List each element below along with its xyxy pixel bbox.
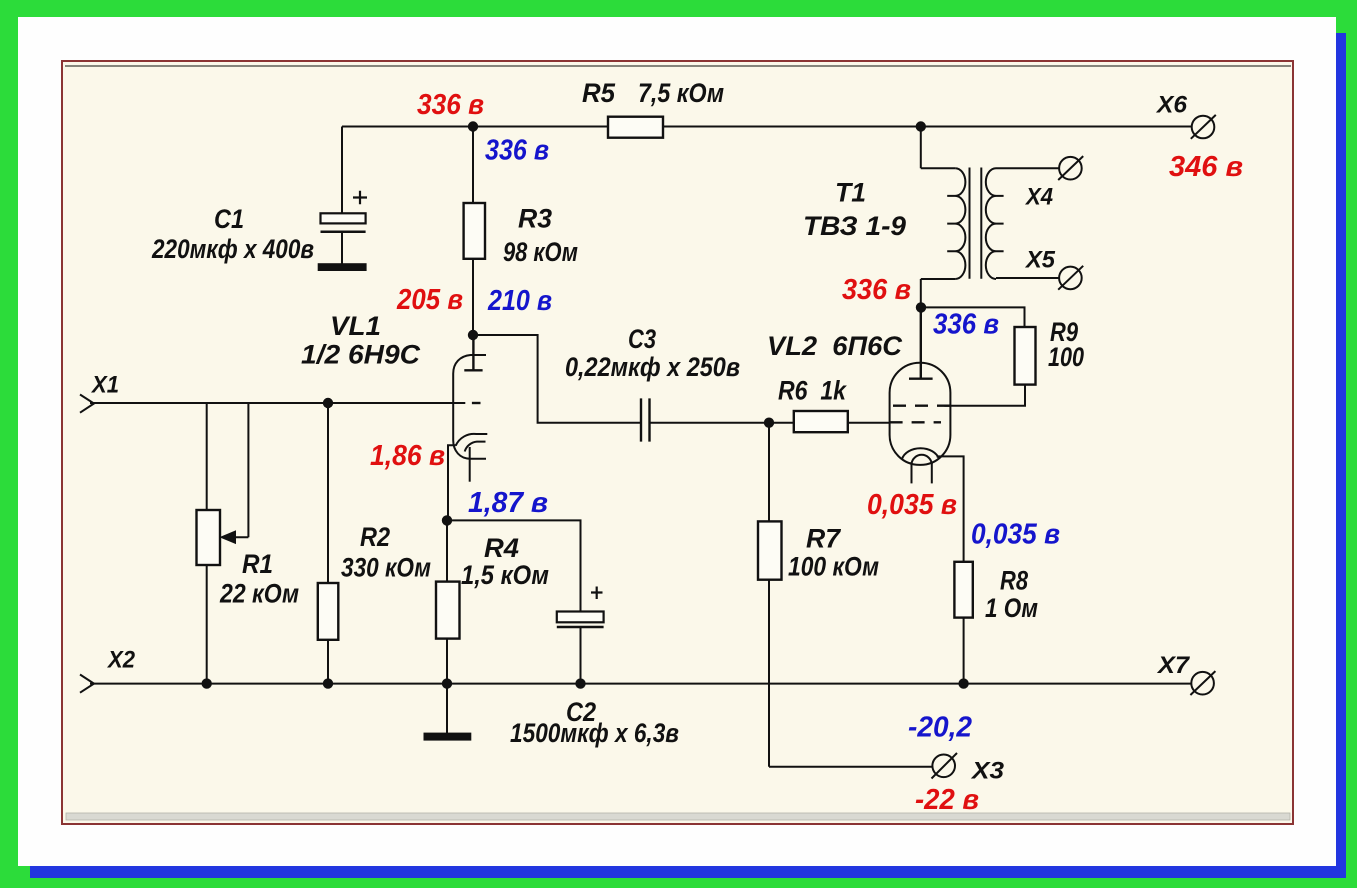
svg-text:100: 100 (1048, 342, 1084, 372)
tube VL2 envelope (890, 363, 951, 465)
terminal X4 (1058, 156, 1083, 180)
resistor R4 (436, 520, 460, 683)
svg-text:X4: X4 (1024, 184, 1053, 211)
transformer T1 core (970, 168, 982, 279)
capacitor C2 (557, 587, 604, 684)
transformer T1 secondary lead X5 (996, 277, 1059, 279)
tube VL2 screen grid (893, 405, 950, 407)
wire X1 to grid (90, 402, 465, 404)
resistor R7 (758, 423, 932, 767)
svg-text:22 кОм: 22 кОм (219, 579, 299, 609)
svg-text:R5: R5 (582, 78, 616, 108)
resistor R2 (318, 403, 339, 684)
svg-text:ТВЗ 1-9: ТВЗ 1-9 (803, 211, 906, 241)
svg-text:205 в: 205 в (396, 284, 463, 316)
svg-text:X5: X5 (1024, 247, 1056, 274)
svg-text:X1: X1 (90, 372, 119, 399)
svg-text:1,5 кОм: 1,5 кОм (461, 560, 549, 590)
transformer T1 primary lead top (921, 127, 955, 169)
svg-text:220мкф х 400в: 220мкф х 400в (151, 234, 314, 264)
wire R3 top lead (472, 127, 474, 204)
terminal X5 (1058, 266, 1083, 290)
wire cathode to C2 (447, 520, 581, 611)
wire C3 to R6 node (650, 422, 770, 424)
wire C1 top lead (341, 127, 343, 213)
svg-text:R3: R3 (518, 204, 552, 234)
svg-text:336 в: 336 в (933, 309, 999, 341)
tube VL1 cathode (448, 434, 487, 521)
junction node dots (202, 121, 969, 689)
svg-text:VL2 6П6С: VL2 6П6С (767, 331, 902, 361)
terminal X1 (80, 395, 94, 413)
wire anode to C3 (473, 335, 641, 423)
svg-text:210 в: 210 в (487, 285, 552, 317)
ground below R4 (425, 684, 471, 740)
svg-text:1/2 6Н9С: 1/2 6Н9С (301, 340, 421, 370)
wire R3 bottom lead (472, 259, 474, 335)
terminal X7 (1190, 671, 1215, 695)
potentiometer R1 (197, 403, 249, 684)
tube VL2 anode (909, 307, 933, 378)
svg-text:R4: R4 (484, 533, 519, 563)
tube VL1 anode (464, 335, 482, 370)
terminal X2 (80, 675, 94, 693)
resistor R5 (608, 117, 663, 138)
svg-text:VL1: VL1 (330, 311, 381, 341)
tube VL2 control grid (890, 421, 941, 423)
svg-text:R1: R1 (242, 549, 273, 579)
ground below C1 (319, 264, 366, 270)
svg-text:R8: R8 (1000, 566, 1028, 596)
tube VL1 grid dash (472, 402, 481, 404)
resistor R3 (464, 203, 485, 259)
svg-text:T1: T1 (835, 178, 866, 208)
svg-text:1500мкф х 6,3в: 1500мкф х 6,3в (510, 718, 679, 748)
svg-text:1,86 в: 1,86 в (370, 440, 445, 472)
svg-text:R6 1k: R6 1k (778, 376, 848, 406)
svg-text:100 кОм: 100 кОм (788, 552, 879, 582)
svg-text:336 в: 336 в (417, 89, 484, 121)
capacitor C3 (641, 398, 650, 441)
svg-text:1,87 в: 1,87 в (468, 487, 548, 519)
tube VL2 heater (912, 455, 932, 484)
resistor R9 (944, 327, 1035, 406)
svg-text:0,22мкф х 250в: 0,22мкф х 250в (565, 352, 740, 382)
svg-text:X6: X6 (1155, 92, 1188, 119)
svg-text:X3: X3 (970, 758, 1005, 785)
transformer T1 primary winding (947, 168, 965, 279)
capacitor C1 (321, 191, 368, 264)
svg-text:X7: X7 (1156, 652, 1191, 679)
svg-text:330 кОм: 330 кОм (341, 553, 431, 583)
transformer T1 secondary lead X4 (996, 167, 1059, 169)
svg-text:C3: C3 (628, 324, 656, 354)
svg-text:-20,2: -20,2 (908, 712, 972, 744)
tube VL1 envelope (453, 355, 486, 459)
svg-text:0,035 в: 0,035 в (971, 519, 1060, 551)
wire 336v node to R9 (921, 307, 1025, 327)
transformer T1 primary lead bottom (921, 279, 955, 307)
svg-text:346 в: 346 в (1169, 151, 1243, 183)
terminal X3 (932, 753, 958, 779)
svg-text:R7: R7 (806, 524, 842, 554)
panel bottom gray strip (66, 813, 1290, 820)
transformer T1 secondary winding (986, 168, 1004, 279)
wire top rail (342, 126, 1192, 128)
svg-text:-22 в: -22 в (915, 784, 979, 816)
svg-text:1 Ом: 1 Ом (985, 593, 1038, 623)
svg-text:336 в: 336 в (842, 274, 911, 306)
svg-text:R2: R2 (360, 522, 390, 552)
svg-text:0,035 в: 0,035 в (867, 489, 957, 521)
svg-text:X2: X2 (106, 647, 135, 674)
tube VL2 cathode (902, 448, 964, 562)
svg-text:C1: C1 (214, 204, 244, 234)
terminal X6 (1191, 115, 1216, 139)
panel inner top gray line (65, 65, 1291, 67)
svg-text:336 в: 336 в (485, 135, 549, 167)
svg-text:7,5 кОм: 7,5 кОм (638, 78, 724, 108)
wire X2 rail (90, 683, 1191, 685)
resistor R8 (954, 562, 972, 684)
resistor R6 (769, 411, 890, 432)
svg-text:98 кОм: 98 кОм (503, 237, 578, 267)
